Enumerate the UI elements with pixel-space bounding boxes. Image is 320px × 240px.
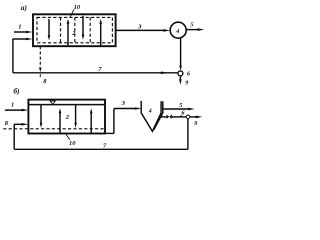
water level line — [28, 104, 105, 106]
node drop to return line — [187, 119, 189, 150]
return entry arrow into tank — [13, 38, 28, 40]
svg-text:10: 10 — [69, 140, 76, 147]
svg-text:9: 9 — [194, 121, 197, 127]
svg-text:7: 7 — [103, 143, 107, 150]
settler funnel 4 — [141, 101, 161, 131]
tank B down arrow 1 — [40, 105, 42, 124]
svg-text:10: 10 — [74, 4, 81, 11]
waste arrow 9 — [179, 76, 181, 80]
waste arrow 9 b — [190, 116, 198, 118]
svg-text:б): б) — [13, 87, 20, 96]
svg-text:а): а) — [21, 3, 28, 12]
tank B outer rectangle — [28, 100, 105, 134]
input arrow 1 b — [5, 109, 24, 111]
node circle b — [186, 115, 190, 119]
svg-text:2: 2 — [65, 114, 70, 121]
outlet chamber wall — [113, 109, 115, 134]
pump circle 4 — [170, 22, 186, 38]
return line 7 b — [14, 148, 188, 150]
line valve to node — [172, 116, 186, 118]
svg-text:4: 4 — [175, 29, 179, 35]
down arrow cell1 — [48, 19, 50, 38]
tank B up arrow 1 — [59, 112, 61, 134]
svg-text:8: 8 — [43, 78, 47, 85]
aeration tank A1 outer rectangle — [33, 14, 116, 46]
svg-text:4: 4 — [148, 108, 152, 114]
output arrow 5 — [186, 29, 199, 31]
node 6 circle — [178, 71, 183, 76]
down arrow cell3 — [82, 16, 84, 37]
arrowhead on line 7 toward node — [161, 72, 168, 75]
aeration tank A1 inner dashed rectangle — [37, 17, 112, 42]
sludge line from funnel — [160, 116, 166, 118]
clarified water arrow 5 b — [163, 108, 190, 110]
dashed control line 8 — [39, 46, 41, 66]
line 3 — [116, 29, 166, 31]
svg-text:6: 6 — [182, 111, 185, 117]
settler funnel double wall — [154, 101, 163, 129]
water level mark — [50, 101, 55, 104]
tank B up arrow 2 — [90, 112, 92, 134]
svg-text:5: 5 — [179, 103, 182, 109]
divider dashed 2 — [74, 17, 76, 42]
svg-text:2: 2 — [71, 30, 76, 37]
pipe 3 b — [114, 108, 137, 110]
return entry arrow b — [14, 123, 23, 125]
divider dashed 1 — [60, 17, 62, 42]
up arrow cell2 — [67, 22, 69, 46]
return riser left b — [13, 124, 15, 149]
return line 7 — [13, 72, 178, 74]
svg-text:9: 9 — [185, 81, 188, 87]
input arrow 1 — [14, 31, 28, 33]
dashed sludge line — [3, 128, 105, 130]
outlet chamber bottom — [105, 132, 114, 134]
valve 6 — [167, 115, 170, 119]
svg-text:3: 3 — [137, 23, 142, 30]
svg-text:3: 3 — [121, 100, 126, 107]
svg-text:1: 1 — [11, 102, 14, 109]
up arrow cell4 — [100, 22, 102, 46]
svg-text:1: 1 — [18, 24, 21, 31]
svg-text:5: 5 — [190, 23, 193, 29]
drop line from circle to node 6 — [180, 38, 182, 66]
divider dashed 3 — [89, 17, 91, 42]
svg-text:8: 8 — [5, 120, 9, 127]
svg-text:6: 6 — [187, 72, 190, 78]
tank B down arrow 2 — [75, 105, 77, 124]
return riser left — [12, 38, 14, 72]
